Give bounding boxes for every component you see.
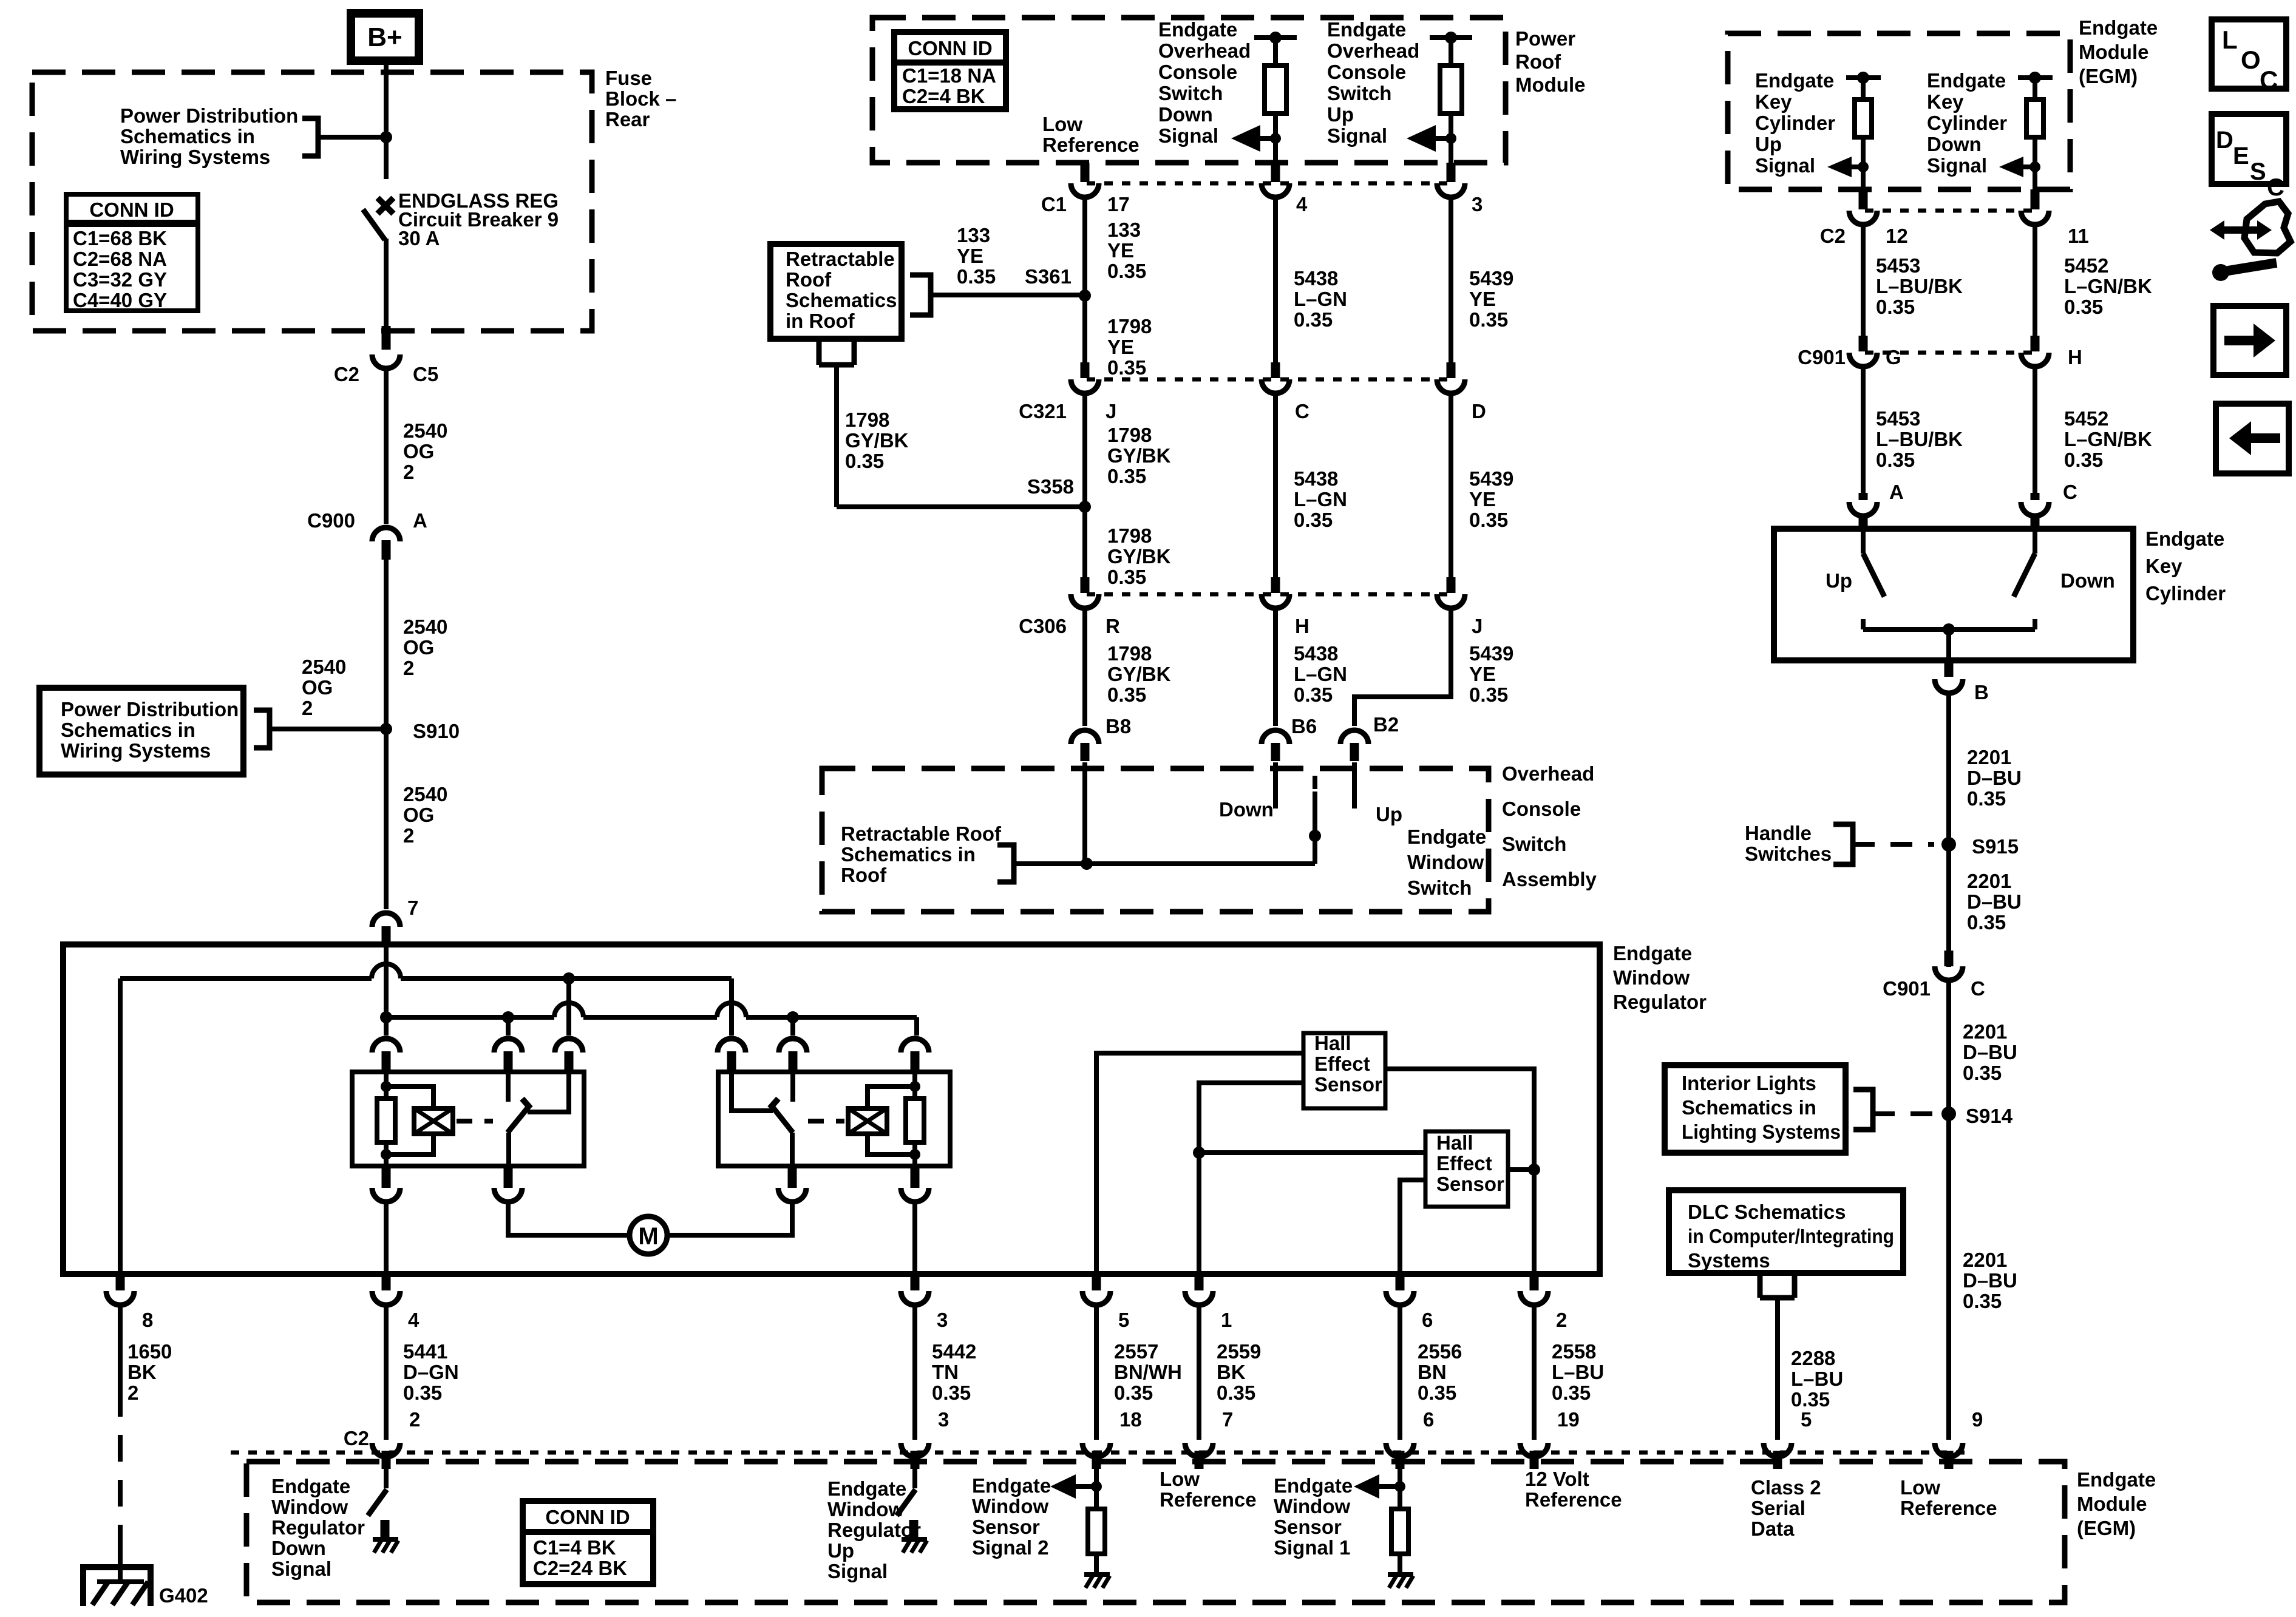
wire 133 YE / 1798 YE <box>1082 196 1087 376</box>
wire hall1 to pin2 <box>1385 1069 1534 1274</box>
splice S914 <box>1941 1107 1956 1121</box>
connector regulator pin 3 <box>901 1291 929 1305</box>
svg-text:Systems: Systems <box>1688 1249 1770 1272</box>
endgate window switch mechanical link <box>1313 776 1317 789</box>
svg-text:in Roof: in Roof <box>786 310 855 332</box>
svg-text:GY/BK: GY/BK <box>1107 545 1171 568</box>
svg-text:Endgate: Endgate <box>1327 18 1406 41</box>
bracket below retractable roof box <box>819 339 854 365</box>
svg-text:5: 5 <box>1801 1408 1812 1431</box>
svg-text:Switches: Switches <box>1745 842 1832 865</box>
svg-text:Roof: Roof <box>841 864 887 886</box>
svg-text:YE: YE <box>1469 663 1496 685</box>
svg-text:C2=24 BK: C2=24 BK <box>533 1557 627 1579</box>
connector C321 pin D <box>1437 379 1465 393</box>
svg-text:Schematics in: Schematics in <box>1682 1096 1816 1119</box>
svg-text:1798: 1798 <box>1107 524 1152 547</box>
svg-text:Console: Console <box>1158 61 1237 83</box>
svg-text:Overhead: Overhead <box>1327 39 1419 62</box>
svg-text:1798: 1798 <box>845 408 889 431</box>
key cylinder down pull-up <box>2018 75 2053 80</box>
svg-text:0.35: 0.35 <box>1107 566 1146 588</box>
svg-text:Wiring Systems: Wiring Systems <box>61 739 211 762</box>
connector pin 7 (regulator) <box>372 913 400 927</box>
svg-text:Reference: Reference <box>1160 1488 1257 1511</box>
svg-text:0.35: 0.35 <box>2064 449 2103 471</box>
resistor sensor 1 <box>1391 1509 1408 1554</box>
branch to relay2 contact pin <box>790 1017 795 1036</box>
svg-text:B8: B8 <box>1106 715 1131 737</box>
relay2 coil branch <box>868 1086 915 1108</box>
svg-text:Endgate: Endgate <box>2077 1468 2156 1491</box>
svg-text:S358: S358 <box>1027 475 1074 498</box>
svg-text:YE: YE <box>1469 488 1496 510</box>
svg-text:Endgate: Endgate <box>1274 1474 1353 1497</box>
svg-text:133: 133 <box>1107 219 1141 241</box>
svg-text:Module: Module <box>1515 73 1585 96</box>
svg-text:Regulator: Regulator <box>1613 991 1707 1013</box>
svg-text:G402: G402 <box>159 1584 208 1607</box>
svg-text:(EGM): (EGM) <box>2079 65 2138 87</box>
svg-text:5452: 5452 <box>2064 254 2108 277</box>
svg-text:Cylinder: Cylinder <box>1927 112 2007 134</box>
wire 2288 L-BU <box>1775 1298 1780 1429</box>
svg-text:2559: 2559 <box>1217 1340 1261 1363</box>
stub C306-H <box>1271 577 1280 593</box>
svg-text:Signal: Signal <box>1927 154 1987 177</box>
stub C1-3 <box>1447 163 1456 182</box>
svg-text:6: 6 <box>1423 1408 1434 1431</box>
stub regulator pin 5 <box>1092 1274 1101 1290</box>
connector regulator pin 1 <box>1185 1291 1213 1305</box>
svg-text:Fuse: Fuse <box>605 67 652 89</box>
relay2 mechanical link <box>808 1119 844 1124</box>
svg-text:Key: Key <box>1927 90 1964 113</box>
EGM bottom dashed box <box>246 1462 2065 1602</box>
svg-text:7: 7 <box>1222 1408 1233 1431</box>
svg-text:GY/BK: GY/BK <box>1107 663 1171 685</box>
junction B8/common <box>1081 858 1093 870</box>
wire 5452 L-GN/BK (seg2) <box>2033 365 2037 493</box>
connector EGM pin 6 <box>1386 1443 1414 1457</box>
svg-text:Block –: Block – <box>605 87 676 110</box>
svg-text:Schematics in: Schematics in <box>841 843 976 866</box>
svg-text:Signal 1: Signal 1 <box>1274 1536 1351 1559</box>
ground (up switch) <box>902 1537 927 1542</box>
svg-text:Endgate: Endgate <box>271 1475 350 1497</box>
branch to relay1 NC pin <box>566 978 571 1036</box>
svg-text:2201: 2201 <box>1967 870 2011 892</box>
svg-text:L–BU/BK: L–BU/BK <box>1876 428 1963 450</box>
arrow down signal <box>1231 125 1260 152</box>
svg-text:S: S <box>2250 158 2266 185</box>
svg-text:0.35: 0.35 <box>1552 1381 1591 1404</box>
svg-text:Down: Down <box>1158 103 1213 126</box>
connector C321 pin J <box>1071 379 1099 393</box>
svg-text:OG: OG <box>403 804 434 826</box>
circuit breaker CB9 ENDGLASS REG 30A <box>378 198 393 214</box>
wire hall2 to junction <box>1508 1167 1534 1172</box>
svg-text:(EGM): (EGM) <box>2077 1517 2136 1539</box>
connector line C901 (top) <box>1865 351 2035 355</box>
wire 2201 to EGM 9 <box>1946 1304 1951 1440</box>
junction at B+ feed <box>380 131 392 143</box>
svg-text:A: A <box>413 509 427 532</box>
svg-text:C1: C1 <box>1041 193 1067 215</box>
svg-text:Endgate: Endgate <box>1755 69 1834 92</box>
svg-text:Window: Window <box>827 1498 904 1520</box>
relay1 top connector cups <box>372 1039 400 1053</box>
svg-text:Roof: Roof <box>1515 50 1561 73</box>
connector regulator pin 2 <box>1520 1291 1548 1305</box>
svg-text:0.35: 0.35 <box>1469 509 1508 531</box>
svg-text:Switch: Switch <box>1327 82 1391 104</box>
wire 1798 GY/BK (seg2) <box>1082 392 1087 591</box>
svg-text:in Computer/Integrating: in Computer/Integrating <box>1688 1225 1894 1247</box>
svg-text:5439: 5439 <box>1469 467 1513 490</box>
junction rail1/NC branch <box>563 972 575 985</box>
power roof module dashed box <box>872 18 1506 163</box>
icon box LOC <box>2212 19 2286 89</box>
svg-text:Signal: Signal <box>1158 124 1218 147</box>
svg-text:C2: C2 <box>334 363 359 385</box>
svg-text:Up: Up <box>1826 569 1852 592</box>
stub C306-J <box>1447 577 1456 593</box>
svg-text:2201: 2201 <box>1967 746 2011 768</box>
ground (sensor 1) <box>1388 1572 1413 1577</box>
svg-text:Overhead: Overhead <box>1502 762 1594 785</box>
svg-text:C1=68 BK: C1=68 BK <box>73 227 167 249</box>
svg-text:C5: C5 <box>413 363 438 385</box>
relay2 top connector cups <box>718 1039 746 1053</box>
relay1 pivot lead <box>506 1133 511 1166</box>
svg-text:Module: Module <box>2077 1493 2147 1515</box>
wire 2201 D-BU (seg1) <box>1946 692 1951 967</box>
resistor (key up) <box>1855 100 1872 137</box>
svg-text:1650: 1650 <box>127 1340 172 1363</box>
svg-text:L–GN/BK: L–GN/BK <box>2064 428 2152 450</box>
stub C901-H <box>2031 336 2040 351</box>
svg-text:18: 18 <box>1119 1408 1142 1431</box>
svg-text:B: B <box>1974 681 1989 703</box>
svg-text:CONN ID: CONN ID <box>89 198 174 221</box>
svg-text:3: 3 <box>938 1408 949 1431</box>
wire to pin B <box>1946 629 1951 660</box>
svg-text:YE: YE <box>957 245 983 267</box>
wire 5453 L-BU/BK (seg2) <box>1861 365 1866 493</box>
stub regulator pin 2 <box>1530 1274 1539 1290</box>
wire 2559 to EGM 7 <box>1197 1304 1201 1440</box>
svg-text:Sensor: Sensor <box>1436 1173 1504 1195</box>
svg-text:Effect: Effect <box>1436 1152 1492 1175</box>
endgate window regulator box <box>63 944 1600 1274</box>
svg-text:5452: 5452 <box>2064 407 2108 430</box>
CONN ID table (power roof module) <box>894 32 1006 109</box>
key cylinder down switch arm <box>2033 531 2037 554</box>
svg-text:Cylinder: Cylinder <box>2145 582 2226 605</box>
wire S910 tap <box>270 727 386 731</box>
connector line C2 (EGM) <box>1865 209 2035 213</box>
wire 2557 to EGM 18 <box>1094 1304 1099 1440</box>
wire 1798 GY/BK (seg3) <box>1082 607 1087 726</box>
svg-text:B2: B2 <box>1373 713 1399 736</box>
bracket handle switches <box>1833 824 1853 864</box>
wire pin8 to G402 (partly dashed) <box>118 1304 123 1390</box>
resistor (key down) <box>2026 100 2043 137</box>
key cylinder common wire <box>1863 627 2035 632</box>
connector C321 pin C <box>1262 379 1289 393</box>
svg-text:Switch: Switch <box>1158 82 1223 104</box>
connector B8 <box>1071 730 1099 744</box>
svg-text:0.35: 0.35 <box>932 1381 971 1404</box>
relay2 pivot lead <box>790 1133 795 1166</box>
endgate module EGM dashed box (top) <box>1728 33 2070 189</box>
svg-text:2: 2 <box>403 824 414 847</box>
connector C2 pin 11 <box>2021 211 2049 225</box>
icon box DESC <box>2212 114 2286 184</box>
wire 2540 OG to connector 7 <box>384 560 389 909</box>
svg-text:Reference: Reference <box>1042 134 1140 156</box>
relay1 NC contact L-wire <box>528 1073 569 1112</box>
up switch contact <box>1352 762 1357 808</box>
svg-text:C: C <box>2063 481 2077 503</box>
ground (sensor 2) <box>1084 1572 1110 1577</box>
branch to right relay NC pin <box>729 978 734 1036</box>
svg-text:Power: Power <box>1515 27 1575 50</box>
stub C321-C <box>1271 362 1280 378</box>
svg-text:Console: Console <box>1327 61 1406 83</box>
stub into key cylinder (C) <box>2031 515 2040 531</box>
wire breaker to C2/C5 <box>384 239 389 326</box>
key cylinder up switch arm <box>1861 531 1866 554</box>
endgate window regulator up switch <box>912 1469 917 1488</box>
connector EGM pin 19 <box>1520 1443 1548 1457</box>
svg-text:0.35: 0.35 <box>1107 683 1146 706</box>
wire relay1 common to motor <box>508 1204 630 1235</box>
stub key cyl B <box>1944 660 1954 677</box>
stub C901-G <box>1859 336 1868 351</box>
stub C1-4 <box>1271 163 1280 182</box>
svg-text:C4=40 GY: C4=40 GY <box>73 289 167 311</box>
svg-text:2540: 2540 <box>403 783 447 805</box>
svg-text:2: 2 <box>403 657 414 679</box>
svg-text:19: 19 <box>1557 1408 1580 1431</box>
sensor signal 1 network <box>1398 1469 1402 1509</box>
svg-text:C901: C901 <box>1883 977 1931 1000</box>
svg-text:Endgate: Endgate <box>972 1474 1051 1497</box>
connector line EGM bottom <box>231 1451 1967 1455</box>
svg-text:Low: Low <box>1042 113 1082 135</box>
splice S910 <box>380 723 392 735</box>
relay2 fixed contact <box>790 1073 795 1102</box>
svg-text:Signal: Signal <box>271 1558 331 1580</box>
connector regulator pin 5 <box>1082 1291 1110 1305</box>
connector C2/C5 <box>372 354 400 368</box>
svg-text:C1=18 NA: C1=18 NA <box>902 64 996 87</box>
wire power distribution tap <box>318 135 385 140</box>
svg-text:Serial: Serial <box>1751 1497 1805 1519</box>
svg-text:BK: BK <box>1217 1361 1246 1383</box>
bracket interior lights <box>1853 1090 1873 1130</box>
svg-text:Low: Low <box>1900 1476 1940 1499</box>
svg-text:C901: C901 <box>1798 346 1846 368</box>
branch to relay2 coil pin <box>914 1017 919 1036</box>
svg-text:L–GN: L–GN <box>1294 288 1347 310</box>
svg-text:GY/BK: GY/BK <box>1107 444 1171 467</box>
relay2 coil <box>848 1108 887 1134</box>
svg-text:0.35: 0.35 <box>1294 308 1333 331</box>
svg-text:GY/BK: GY/BK <box>845 429 909 452</box>
svg-text:Schematics: Schematics <box>786 289 897 311</box>
svg-text:1: 1 <box>1221 1309 1232 1331</box>
power distribution schematics box (S910) <box>39 688 243 775</box>
svg-text:5439: 5439 <box>1469 642 1513 665</box>
svg-text:Reference: Reference <box>1900 1497 1997 1519</box>
svg-text:D: D <box>1472 400 1486 422</box>
wire pin5 to hall1 <box>1096 1053 1303 1274</box>
relay2 resistor branch <box>912 1073 917 1099</box>
svg-text:L–BU: L–BU <box>1791 1368 1843 1390</box>
relay 2 (up relay) box <box>718 1072 950 1166</box>
wire relay2 to pin 3 <box>912 1204 917 1274</box>
svg-text:9: 9 <box>1972 1408 1983 1431</box>
wire 2556 to EGM 6 <box>1398 1304 1402 1440</box>
dashed link interior lights <box>1873 1111 1934 1116</box>
svg-text:C306: C306 <box>1019 615 1067 637</box>
connector C1 pin 3 <box>1437 183 1465 197</box>
arrow sensor signal 1 <box>1354 1474 1379 1499</box>
svg-text:Interior Lights: Interior Lights <box>1682 1072 1816 1094</box>
svg-text:Signal: Signal <box>1327 124 1387 147</box>
svg-text:C900: C900 <box>307 509 355 532</box>
wire 5453 L-BU/BK (seg1) <box>1861 223 1866 350</box>
svg-text:5442: 5442 <box>932 1340 976 1363</box>
svg-text:OG: OG <box>302 676 333 699</box>
svg-text:Endgate: Endgate <box>1158 18 1237 41</box>
junction rail2/relay1 contact <box>502 1011 514 1023</box>
wire switch common <box>1019 861 1315 866</box>
svg-text:D–BU: D–BU <box>1963 1041 2017 1063</box>
junction hall2 out <box>1528 1164 1540 1176</box>
svg-text:5438: 5438 <box>1294 642 1338 665</box>
endgate key cylinder box <box>1774 529 2133 660</box>
svg-text:C2=4 BK: C2=4 BK <box>902 85 985 107</box>
svg-text:2: 2 <box>409 1408 420 1431</box>
stub into key cylinder (A) <box>1859 515 1868 531</box>
hall effect sensor 2 box <box>1425 1131 1508 1207</box>
retractable roof schematics box (upper) <box>770 244 902 339</box>
wire 5438 L-GN (seg3) <box>1273 607 1278 726</box>
svg-text:0.35: 0.35 <box>957 265 996 288</box>
svg-text:2556: 2556 <box>1418 1340 1462 1363</box>
svg-text:11: 11 <box>2068 225 2089 247</box>
svg-text:Key: Key <box>1755 90 1792 113</box>
connector line C306 <box>1087 592 1451 597</box>
svg-text:Hall: Hall <box>1436 1131 1473 1154</box>
svg-text:2288: 2288 <box>1791 1347 1835 1369</box>
svg-text:4: 4 <box>1296 193 1308 215</box>
svg-text:L–GN/BK: L–GN/BK <box>2064 275 2152 297</box>
svg-text:Schematics in: Schematics in <box>61 719 195 741</box>
svg-text:Key: Key <box>2145 555 2182 577</box>
stub C321-J <box>1081 362 1090 378</box>
resistor (down signal) <box>1265 66 1286 114</box>
svg-text:5441: 5441 <box>403 1340 447 1363</box>
relay1 mechanical link <box>457 1119 493 1124</box>
svg-text:2540: 2540 <box>302 656 346 678</box>
svg-text:Switch: Switch <box>1407 876 1472 899</box>
svg-text:5438: 5438 <box>1294 467 1338 490</box>
wire pin6 to hall2 <box>1400 1180 1425 1274</box>
svg-text:0.35: 0.35 <box>1469 683 1508 706</box>
svg-text:J: J <box>1106 400 1116 422</box>
svg-text:A: A <box>1889 481 1904 503</box>
internal rail 1 (top) <box>120 976 372 981</box>
ground G402 <box>83 1567 151 1606</box>
svg-text:YE: YE <box>1107 336 1134 358</box>
svg-text:Hall: Hall <box>1314 1032 1351 1054</box>
svg-text:Overhead: Overhead <box>1158 39 1251 62</box>
wire 5439 YE (seg2) <box>1449 392 1453 591</box>
key cylinder up pull-up <box>1846 75 1881 80</box>
svg-text:4: 4 <box>408 1309 419 1331</box>
connector C306 pin H <box>1262 594 1289 608</box>
svg-text:Up: Up <box>827 1539 854 1562</box>
svg-text:J: J <box>1472 615 1483 637</box>
relay1 lower cups <box>382 1166 391 1188</box>
svg-text:Down: Down <box>271 1537 326 1559</box>
svg-text:Endgate: Endgate <box>1407 825 1486 848</box>
arrow key cylinder up signal <box>1827 157 1852 177</box>
svg-text:G: G <box>1886 346 1901 368</box>
svg-text:L–GN: L–GN <box>1294 663 1347 685</box>
svg-text:Switch: Switch <box>1502 833 1566 855</box>
svg-text:YE: YE <box>1107 239 1134 262</box>
stub regulator pin 3 <box>911 1274 920 1290</box>
stub C1-17 <box>1081 163 1090 182</box>
junction key cylinder common <box>1943 623 1955 636</box>
svg-text:Assembly: Assembly <box>1502 868 1597 890</box>
svg-text:D–BU: D–BU <box>1967 767 2022 789</box>
svg-text:Cylinder: Cylinder <box>1755 112 1835 134</box>
svg-text:5438: 5438 <box>1294 267 1338 290</box>
svg-text:5453: 5453 <box>1876 407 1920 430</box>
svg-text:2201: 2201 <box>1963 1249 2007 1271</box>
battery feed B+ box <box>351 13 419 61</box>
svg-text:8: 8 <box>142 1309 153 1331</box>
svg-text:H: H <box>2068 346 2082 368</box>
svg-text:BK: BK <box>127 1361 157 1383</box>
wire B8 to common <box>1082 762 1087 864</box>
svg-text:0.35: 0.35 <box>1967 787 2006 810</box>
svg-text:0.35: 0.35 <box>1107 465 1146 487</box>
wire relay1 to pin 4 <box>384 1204 389 1274</box>
resistor sensor 2 <box>1088 1509 1105 1554</box>
arrow key cylinder down signal <box>1999 157 2023 177</box>
svg-text:D–GN: D–GN <box>403 1361 459 1383</box>
svg-text:S361: S361 <box>1025 265 1072 288</box>
svg-text:Down: Down <box>2060 569 2115 592</box>
dashed link handle switches <box>1853 842 1934 847</box>
down switch contact <box>1273 762 1278 808</box>
svg-text:D: D <box>2216 127 2233 154</box>
svg-text:L–BU/BK: L–BU/BK <box>1876 275 1963 297</box>
svg-text:OG: OG <box>403 440 434 463</box>
svg-text:C3=32 GY: C3=32 GY <box>73 268 167 291</box>
wire pin1 to hall2 <box>1199 1150 1425 1155</box>
splice S361 <box>1079 290 1091 302</box>
CONN ID table (EGM) <box>523 1501 653 1584</box>
